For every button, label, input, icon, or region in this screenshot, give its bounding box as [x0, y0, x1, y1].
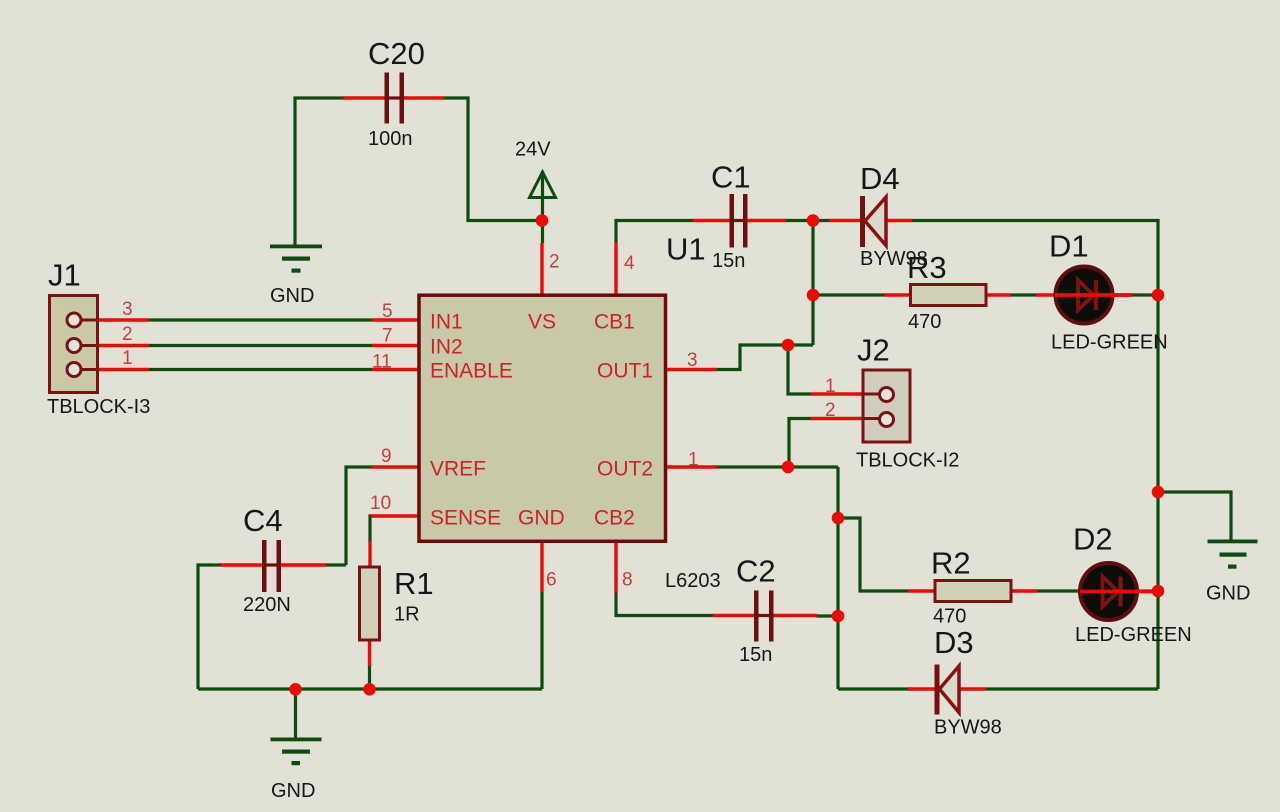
wire CB1 corner to C1 [616, 221, 694, 243]
pin wire R3 left red [884, 293, 911, 296]
junction OUT1 node [782, 339, 795, 352]
connector J2 TBLOCK-I2 [862, 370, 910, 442]
wire C4 left elbow down [198, 565, 222, 689]
pin wire J2 pin2 red [811, 417, 862, 420]
junction R2 branch node [832, 512, 845, 525]
svg-text:OUT1: OUT1 [597, 360, 653, 383]
pin wire R1 bottom red [368, 639, 371, 666]
svg-text:IN1: IN1 [430, 311, 463, 334]
svg-text:ENABLE: ENABLE [430, 360, 513, 383]
svg-text:VS: VS [528, 311, 556, 334]
wire D4 to top right corner [911, 219, 1160, 222]
svg-text:R2: R2 [931, 546, 971, 581]
pin wire C1 right red [747, 219, 786, 222]
junction rail node 1 [289, 683, 302, 696]
svg-text:GND: GND [518, 507, 565, 530]
svg-text:D1: D1 [1049, 229, 1089, 264]
svg-text:1: 1 [122, 348, 133, 369]
wire OUT2 node to J2 pin2 [789, 419, 811, 468]
svg-text:2: 2 [122, 324, 133, 345]
capacitor gap shading C4 [265, 563, 277, 566]
pin wire J1 row2 red [98, 344, 149, 347]
pin wire through D1 red [1036, 293, 1132, 296]
svg-text:1: 1 [825, 376, 836, 397]
svg-text:GND: GND [271, 780, 315, 802]
pin wire R2 left red [908, 589, 936, 592]
pin wire J2 pin1 red [811, 392, 862, 395]
svg-text:C1: C1 [711, 160, 751, 195]
ground GND3 (right) [1208, 540, 1258, 569]
pin wire D3 right red [960, 687, 986, 690]
wire J1 row 1 green [148, 318, 373, 321]
wire C1 to D4 node [785, 219, 830, 222]
svg-text:SENSE: SENSE [430, 507, 501, 530]
svg-text:24V: 24V [515, 139, 551, 161]
wire IC GND pin green [540, 591, 543, 689]
capacitor C1 [730, 194, 748, 248]
LED D1 [1055, 267, 1132, 324]
wire OUT2 row green [716, 465, 838, 468]
wire D3 to right rail [986, 687, 1158, 690]
pin wire C2 right red [773, 614, 817, 617]
wire CB2 elbow to C2 [616, 592, 714, 616]
pin wire IN1 red [372, 318, 418, 321]
wire D2 to right rail [1130, 589, 1158, 592]
junction rail node 2 [363, 683, 376, 696]
svg-text:220N: 220N [243, 594, 291, 616]
pin wire VS red (pin 2) [540, 243, 543, 295]
pin wire OUT2 red (pin 1) [664, 465, 717, 468]
pin wire SENSE red (pin 10) [371, 514, 418, 517]
svg-text:CB2: CB2 [594, 507, 635, 530]
junction D1 right node [1152, 289, 1165, 302]
svg-text:C2: C2 [736, 554, 776, 589]
resistor R2 [935, 581, 1011, 602]
pin wire C20 left red [343, 96, 385, 99]
wire C2 right to node [816, 614, 838, 617]
connector J1 TBLOCK-I3 [50, 296, 100, 393]
pin wire IC GND red (pin 6) [540, 540, 543, 592]
wire 24V arrow stem [541, 171, 544, 243]
svg-text:9: 9 [381, 446, 392, 467]
ground GND1 (under C20) [270, 245, 322, 273]
wire VREF elbow down [346, 467, 372, 565]
svg-text:6: 6 [546, 570, 557, 591]
svg-text:OUT2: OUT2 [597, 458, 653, 481]
pin wire C4 right red [280, 563, 326, 566]
svg-text:LED-GREEN: LED-GREEN [1075, 624, 1192, 646]
pin wire D3 left red [908, 687, 935, 690]
svg-text:2: 2 [549, 252, 560, 273]
wire ground rail bottom [198, 687, 542, 690]
wire GND2 stem [294, 689, 297, 739]
svg-text:L6203: L6203 [665, 570, 721, 592]
svg-text:J1: J1 [48, 258, 81, 293]
svg-text:3: 3 [687, 350, 698, 371]
svg-text:TBLOCK-I2: TBLOCK-I2 [856, 450, 959, 472]
junction D2 right node [1152, 585, 1165, 598]
svg-text:5: 5 [382, 301, 393, 322]
capacitor C2 [754, 591, 774, 642]
junction OUT2 node [782, 461, 795, 474]
wire R1 bottom green [368, 665, 371, 689]
wire R3 to D1 green [1010, 293, 1037, 296]
svg-text:3: 3 [122, 299, 133, 320]
power 24V arrow [530, 172, 556, 198]
junction C1/D4 node [807, 214, 820, 227]
op-amp U1 L6203 IC body [419, 295, 666, 541]
capacitor gap shading C2 [757, 614, 770, 617]
capacitor gap shading C1 [733, 219, 744, 222]
resistor R3 [911, 285, 987, 306]
pin wire CB1 red (pin 4) [614, 242, 617, 295]
svg-text:15n: 15n [712, 250, 745, 272]
pin wire R2 right red [1010, 589, 1037, 592]
pin wire J1 row1 red [98, 318, 149, 321]
pin wire C20 right red [403, 96, 444, 99]
pin wire ENABLE red [372, 368, 418, 371]
svg-text:C20: C20 [368, 36, 425, 71]
svg-text:GND: GND [1206, 583, 1250, 605]
pin wire VREF red (pin 9) [371, 465, 418, 468]
wire right GND branch [1158, 492, 1231, 541]
pin wire C4 left red [221, 563, 263, 566]
svg-text:1: 1 [688, 450, 699, 471]
wire node A vertical x=813 [811, 221, 814, 346]
wire C4 right green [325, 563, 346, 566]
LED D2 [1080, 563, 1156, 620]
pin wire C2 left red [713, 614, 755, 617]
wire vertical x=838 [836, 467, 839, 689]
pin wire D4 left red [829, 219, 861, 222]
resistor R1 [360, 567, 380, 640]
svg-text:15n: 15n [739, 644, 772, 666]
junction right GND node [1152, 486, 1165, 499]
pin wire through D2 red [1077, 589, 1131, 592]
svg-text:C4: C4 [243, 503, 283, 538]
pin wire SENSE to R1 red [368, 541, 371, 568]
svg-text:470: 470 [908, 311, 941, 333]
ground GND2 (bottom) [271, 738, 322, 766]
capacitor gap shading C20 [388, 96, 400, 99]
pin wire R3 right red [985, 293, 1011, 296]
svg-text:11: 11 [372, 352, 392, 373]
svg-text:IN2: IN2 [430, 336, 463, 359]
svg-text:D2: D2 [1073, 522, 1113, 557]
svg-text:VREF: VREF [430, 458, 486, 481]
svg-text:BYW98: BYW98 [934, 717, 1002, 739]
wire branch to R2 [838, 518, 909, 591]
wire J1 row 2 green [148, 344, 373, 347]
wire C20 left horizontal [295, 98, 344, 246]
wire OUT1 elbow to node [716, 345, 813, 370]
junction C2 node [832, 610, 845, 623]
wire C20 right to 24V node [443, 98, 541, 221]
wire R3 row green [813, 293, 885, 296]
svg-text:GND: GND [270, 285, 314, 307]
wire D3 row left green [838, 687, 912, 690]
svg-text:J2: J2 [857, 333, 890, 368]
svg-text:8: 8 [622, 570, 633, 591]
pin wire IN2 red [372, 344, 418, 347]
svg-text:R1: R1 [394, 566, 434, 601]
wire J1 row 3 green [148, 368, 373, 371]
pin wire OUT1 red (pin 3) [664, 368, 717, 371]
capacitor C4 [262, 540, 281, 592]
svg-text:U1: U1 [666, 232, 706, 267]
pin wire C1 left red [693, 219, 730, 222]
junction R3 node [807, 289, 820, 302]
svg-text:4: 4 [624, 253, 635, 274]
svg-text:7: 7 [382, 326, 393, 347]
wire right rail vertical [1156, 221, 1159, 690]
svg-text:100n: 100n [368, 128, 413, 150]
svg-text:10: 10 [370, 493, 391, 514]
svg-text:D4: D4 [860, 161, 900, 196]
pin wire J1 row3 red [98, 368, 149, 371]
pin wire CB2 red (pin 8) [614, 540, 617, 593]
svg-text:TBLOCK-I3: TBLOCK-I3 [47, 396, 150, 418]
svg-text:R3: R3 [907, 250, 947, 285]
svg-text:1R: 1R [394, 604, 420, 626]
wire SENSE elbow down [370, 516, 372, 542]
wire node to J2 pin1 [788, 345, 811, 394]
wire R2 to D2 green [1036, 589, 1078, 592]
pin wire D4 right red [887, 219, 912, 222]
diode D3 [935, 665, 960, 715]
svg-text:2: 2 [825, 400, 836, 421]
junction 24V node [536, 214, 549, 227]
diode D4 [860, 196, 886, 247]
svg-text:LED-GREEN: LED-GREEN [1051, 332, 1168, 354]
wire D1 to right rail [1131, 293, 1158, 296]
svg-text:D3: D3 [934, 625, 974, 660]
capacitor C20 [385, 73, 405, 124]
svg-text:CB1: CB1 [594, 311, 635, 334]
